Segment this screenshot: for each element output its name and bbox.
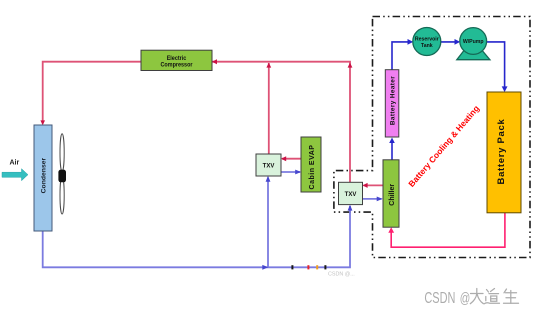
svg-text:@: @ — [460, 291, 471, 307]
svg-text:Electric: Electric — [167, 56, 187, 62]
svg-text:CSDN: CSDN — [424, 290, 455, 307]
svg-text:Condenser: Condenser — [40, 158, 47, 194]
svg-text:Battery Pack: Battery Pack — [496, 119, 507, 185]
svg-text:TXV: TXV — [263, 164, 275, 170]
svg-text:CSDN @...: CSDN @... — [328, 272, 355, 278]
svg-text:Battery Cooling & Heating: Battery Cooling & Heating — [406, 103, 481, 188]
svg-text:Chiller: Chiller — [389, 184, 396, 206]
svg-text:Reservoir: Reservoir — [415, 37, 439, 43]
svg-text:Cabin EVAP: Cabin EVAP — [309, 145, 316, 190]
svg-text:Air: Air — [10, 160, 20, 167]
svg-text:Battery Heater: Battery Heater — [389, 76, 396, 125]
svg-text:Tank: Tank — [421, 43, 433, 49]
svg-text:W/Pump: W/Pump — [463, 39, 484, 45]
svg-text:Compressor: Compressor — [161, 63, 194, 69]
svg-text:TXV: TXV — [345, 192, 357, 198]
